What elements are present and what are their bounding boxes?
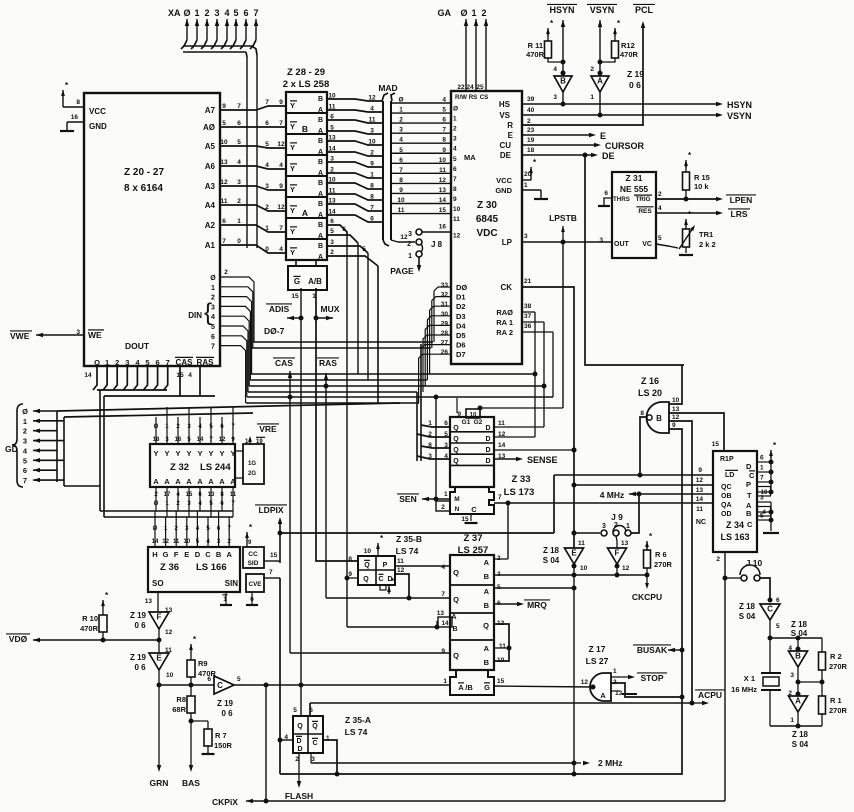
svg-text:9: 9 <box>442 147 446 154</box>
resistor R9 470R <box>187 635 217 688</box>
svg-text:G2: G2 <box>474 419 483 426</box>
svg-text:8: 8 <box>348 556 352 563</box>
svg-text:3: 3 <box>599 237 603 244</box>
svg-text:4: 4 <box>370 106 374 113</box>
svg-text:10 k: 10 k <box>694 182 709 191</box>
svg-text:38: 38 <box>524 303 532 310</box>
svg-text:12: 12 <box>622 565 630 572</box>
svg-text:12: 12 <box>165 629 173 636</box>
CKCPU line Z37 B inputs <box>494 575 647 588</box>
ACPU net label <box>310 690 725 705</box>
oscillator bottom wire <box>770 725 822 727</box>
svg-text:13: 13 <box>621 540 629 547</box>
svg-text:9: 9 <box>672 422 676 429</box>
CRT controller Z30 6845 VDC <box>439 91 535 364</box>
svg-text:RAØ: RAØ <box>496 308 513 317</box>
RAS net label with arrow <box>317 358 339 598</box>
svg-text:15: 15 <box>497 678 505 685</box>
svg-text:Y: Y <box>164 449 169 458</box>
BUSAK net label <box>633 645 685 655</box>
svg-text:5: 5 <box>453 156 457 163</box>
Z37 input wires <box>326 598 450 630</box>
svg-text:5: 5 <box>362 246 366 253</box>
RAM Z20-27 8x6164 <box>76 93 220 379</box>
svg-text:7: 7 <box>498 494 502 501</box>
svg-text:Y: Y <box>290 185 295 194</box>
svg-text:P: P <box>746 480 751 489</box>
svg-text:10: 10 <box>183 539 190 545</box>
svg-text:A: A <box>318 254 323 261</box>
svg-text:6: 6 <box>222 218 226 225</box>
LP wire 6845 to 555 <box>522 240 612 245</box>
svg-text:Ø: Ø <box>22 407 28 416</box>
svg-text:G: G <box>294 277 300 286</box>
svg-text:7: 7 <box>279 225 283 232</box>
svg-text:DOUT: DOUT <box>125 341 150 351</box>
svg-text:13: 13 <box>145 598 153 605</box>
svg-text:5: 5 <box>211 324 215 331</box>
svg-text:D3: D3 <box>456 312 466 321</box>
svg-text:10: 10 <box>453 206 461 213</box>
svg-text:13: 13 <box>328 135 336 142</box>
svg-text:Q: Q <box>363 576 369 583</box>
svg-text:D6: D6 <box>456 341 466 350</box>
svg-text:12: 12 <box>439 177 447 184</box>
svg-text:3: 3 <box>125 358 129 367</box>
svg-text:36: 36 <box>524 323 532 330</box>
Z37 A input from Z33 <box>494 558 508 560</box>
svg-text:GND: GND <box>89 122 107 131</box>
svg-text:VCC: VCC <box>496 176 512 185</box>
LD line to Z34 <box>554 467 713 475</box>
svg-text:3: 3 <box>211 304 215 311</box>
svg-text:10: 10 <box>328 177 336 184</box>
svg-text:7: 7 <box>441 591 445 598</box>
svg-text:MRQ: MRQ <box>527 600 547 610</box>
svg-text:E: E <box>184 550 189 559</box>
svg-text:BUSAK: BUSAK <box>637 645 668 655</box>
svg-text:A/B: A/B <box>308 277 322 286</box>
svg-text:Ø: Ø <box>183 8 190 18</box>
MAD bus label <box>378 83 397 101</box>
svg-text:6: 6 <box>444 420 448 427</box>
svg-text:9: 9 <box>698 467 702 474</box>
svg-text:RES: RES <box>638 208 652 215</box>
svg-text:B: B <box>795 652 801 661</box>
svg-text:LPSTB: LPSTB <box>549 213 577 223</box>
svg-text:12: 12 <box>220 179 228 186</box>
svg-text:DØ: DØ <box>456 283 467 292</box>
svg-text:1: 1 <box>399 107 403 114</box>
svg-text:FLASH: FLASH <box>285 791 313 801</box>
svg-text:P: P <box>383 562 388 569</box>
svg-text:5: 5 <box>330 228 334 235</box>
svg-text:LP: LP <box>502 238 513 247</box>
svg-text:M: M <box>454 496 459 503</box>
svg-text:16 MHz: 16 MHz <box>731 685 757 694</box>
svg-text:H: H <box>152 550 157 559</box>
svg-text:2: 2 <box>370 150 374 157</box>
svg-text:D5: D5 <box>456 331 466 340</box>
svg-text:Y: Y <box>290 122 295 131</box>
VSYN net label top <box>587 4 617 117</box>
svg-text:B: B <box>484 572 490 581</box>
svg-text:14: 14 <box>328 209 336 216</box>
RA0 RA1 RA2 wires <box>522 312 553 397</box>
svg-text:D1: D1 <box>456 293 466 302</box>
svg-text:E: E <box>156 654 162 663</box>
LPEN output <box>656 195 756 205</box>
svg-text:Y: Y <box>230 449 235 458</box>
svg-text:Q: Q <box>453 436 459 443</box>
svg-text:3: 3 <box>408 231 412 238</box>
svg-text:LRS: LRS <box>731 209 748 219</box>
svg-text:A1: A1 <box>205 241 216 250</box>
DE feedback wire <box>583 153 685 366</box>
svg-text:10: 10 <box>364 548 372 555</box>
svg-text:LS 27: LS 27 <box>586 656 609 666</box>
GD video data bus arrows 0-7 <box>5 404 100 487</box>
svg-text:R 15: R 15 <box>694 173 710 182</box>
resistor R1 270R <box>819 696 848 726</box>
svg-text:2 x LS 258: 2 x LS 258 <box>283 79 329 90</box>
svg-text:A7: A7 <box>205 106 216 115</box>
svg-text:GRN: GRN <box>150 778 169 788</box>
svg-text:Q: Q <box>364 562 370 569</box>
svg-text:A: A <box>208 477 214 486</box>
svg-text:SIN: SIN <box>225 579 239 588</box>
svg-text:Z 36: Z 36 <box>160 562 179 573</box>
svg-text:C: C <box>471 505 477 514</box>
Z33 clock wire to Z34 <box>494 501 713 560</box>
svg-text:CKPiX: CKPiX <box>212 797 238 807</box>
svg-text:Y: Y <box>219 449 224 458</box>
svg-text:Y: Y <box>290 143 295 152</box>
svg-text:A: A <box>318 170 323 177</box>
svg-text:12: 12 <box>162 539 169 545</box>
svg-text:F: F <box>174 550 179 559</box>
svg-text:15: 15 <box>439 207 447 214</box>
svg-text:1: 1 <box>370 172 374 179</box>
svg-text:6: 6 <box>237 120 241 127</box>
svg-text:Z 34: Z 34 <box>726 520 744 530</box>
GA bus labels GA0-2 <box>438 8 489 91</box>
svg-text:B: B <box>484 601 490 610</box>
ADIS net label with arrow <box>266 288 304 716</box>
svg-text:7: 7 <box>166 358 170 367</box>
svg-text:15: 15 <box>270 552 278 559</box>
XA address bus labels XA0-7 <box>168 8 259 18</box>
svg-text:6: 6 <box>265 120 269 127</box>
svg-text:5: 5 <box>237 139 241 146</box>
svg-text:12: 12 <box>368 95 376 102</box>
svg-text:3: 3 <box>760 495 764 502</box>
svg-text:B: B <box>318 222 323 229</box>
svg-text:4: 4 <box>553 66 557 73</box>
svg-text:19: 19 <box>527 137 535 144</box>
svg-text:{: { <box>204 299 212 326</box>
svg-text:3: 3 <box>330 239 334 246</box>
svg-text:6: 6 <box>207 676 211 683</box>
svg-text:Z 18: Z 18 <box>791 620 808 629</box>
svg-text:VWE: VWE <box>10 331 30 341</box>
svg-text:2: 2 <box>211 295 215 302</box>
svg-text:2G: 2G <box>248 471 256 477</box>
jumper J8 <box>391 229 451 272</box>
inverter Z19 A open collector <box>590 66 644 101</box>
HSYN net label top <box>547 4 577 106</box>
svg-text:Ø: Ø <box>460 8 467 18</box>
svg-text:11: 11 <box>398 207 405 214</box>
svg-text:3: 3 <box>602 523 606 530</box>
VWE net label and wire <box>10 331 84 341</box>
SEN net label <box>397 395 450 512</box>
svg-text:11: 11 <box>397 558 404 565</box>
6845 VCC power stub <box>522 158 537 180</box>
svg-text:VSYN: VSYN <box>727 111 752 121</box>
svg-text:7: 7 <box>265 99 269 106</box>
svg-text:B: B <box>318 180 323 187</box>
svg-text:5: 5 <box>222 120 226 127</box>
svg-text:C: C <box>378 576 383 583</box>
svg-text:1: 1 <box>613 668 617 675</box>
svg-text:12: 12 <box>581 679 589 686</box>
svg-text:8: 8 <box>76 99 80 106</box>
svg-text:4: 4 <box>442 97 446 104</box>
svg-text:2 k 2: 2 k 2 <box>699 240 716 249</box>
svg-text:SID: SID <box>248 560 259 567</box>
svg-text:5: 5 <box>776 623 780 630</box>
resistor R6 270R <box>644 532 673 578</box>
svg-text:QA: QA <box>721 502 732 509</box>
Z34 clock pin 2 <box>716 552 727 801</box>
svg-text:PCL: PCL <box>635 5 654 15</box>
svg-text:6: 6 <box>243 8 248 18</box>
svg-text:G: G <box>163 550 169 559</box>
Z32 to Z36 bus lines <box>100 511 233 517</box>
svg-text:11: 11 <box>498 420 505 427</box>
svg-text:TRIG: TRIG <box>636 196 651 203</box>
svg-text:3: 3 <box>237 179 241 186</box>
svg-text:8: 8 <box>370 194 374 201</box>
svg-text:B: B <box>318 96 323 103</box>
svg-text:8: 8 <box>399 177 403 184</box>
LDPIX net label <box>255 475 554 563</box>
svg-text:B: B <box>318 159 323 166</box>
svg-text:12: 12 <box>277 204 285 211</box>
6845 GND ground stub <box>522 190 548 199</box>
svg-text:11: 11 <box>578 540 585 547</box>
shift register Z36 LS166 <box>148 511 240 592</box>
svg-text:14: 14 <box>439 197 447 204</box>
svg-text:VDØ: VDØ <box>9 634 28 644</box>
svg-text:10: 10 <box>580 565 588 572</box>
svg-text:Z 28 - 29: Z 28 - 29 <box>287 67 325 78</box>
svg-text:2: 2 <box>265 204 269 211</box>
svg-text:14: 14 <box>84 372 92 379</box>
svg-text:13: 13 <box>696 487 704 494</box>
svg-text:J 8: J 8 <box>431 240 443 249</box>
svg-text:5: 5 <box>265 141 269 148</box>
svg-text:A: A <box>153 477 159 486</box>
svg-text:TR1: TR1 <box>699 230 713 239</box>
svg-text:A: A <box>197 477 203 486</box>
svg-text:9: 9 <box>222 103 226 110</box>
svg-text:40: 40 <box>527 107 535 114</box>
svg-text:C: C <box>312 740 317 747</box>
resistor R11 470R <box>526 19 565 65</box>
svg-text:LS 173: LS 173 <box>504 487 535 498</box>
VRE net label <box>245 424 279 445</box>
svg-text:3: 3 <box>553 94 557 101</box>
svg-text:SEN: SEN <box>399 494 416 504</box>
resistor R8 68R <box>172 685 195 724</box>
svg-text:NE 555: NE 555 <box>620 184 649 194</box>
Z33 control box <box>450 487 502 523</box>
svg-text:Q: Q <box>297 723 303 730</box>
mux outputs to MAD bus <box>327 93 383 223</box>
svg-text:LDPIX: LDPIX <box>258 505 283 515</box>
svg-text:LS 74: LS 74 <box>345 727 368 737</box>
svg-text:MUX: MUX <box>321 304 340 314</box>
svg-text:9: 9 <box>279 99 283 106</box>
svg-text:3: 3 <box>524 233 528 240</box>
svg-text:28: 28 <box>441 330 449 337</box>
svg-text:12: 12 <box>453 233 461 240</box>
Z31 THRS ground <box>598 198 612 206</box>
svg-text:Z 19: Z 19 <box>130 611 147 620</box>
svg-text:E: E <box>508 131 514 140</box>
svg-text:Z 18: Z 18 <box>739 602 756 611</box>
svg-text:DE: DE <box>602 151 615 161</box>
svg-text:Y: Y <box>290 248 295 257</box>
svg-text:G1: G1 <box>462 419 471 426</box>
svg-text:A: A <box>302 208 308 218</box>
svg-text:Z 19: Z 19 <box>627 69 644 79</box>
Z16 input wires <box>669 365 724 706</box>
svg-text:0: 0 <box>265 246 269 253</box>
svg-text:Z 16: Z 16 <box>641 376 659 386</box>
svg-text:A: A <box>484 587 490 596</box>
svg-text:11: 11 <box>696 506 703 513</box>
svg-text:GND: GND <box>495 186 512 195</box>
svg-text:6845: 6845 <box>476 214 499 225</box>
svg-text:R 6: R 6 <box>655 550 667 559</box>
svg-text:1: 1 <box>265 225 269 232</box>
svg-text:Z 33: Z 33 <box>511 474 530 485</box>
inverter Z18 C oscillator <box>739 597 780 638</box>
svg-text:RA 1: RA 1 <box>496 318 513 327</box>
svg-text:Y: Y <box>290 101 295 110</box>
svg-text:QC: QC <box>721 484 732 491</box>
svg-text:Q: Q <box>453 651 459 660</box>
svg-text:CK: CK <box>500 283 512 292</box>
svg-text:2 MHz: 2 MHz <box>598 758 623 768</box>
svg-text:31: 31 <box>441 301 449 308</box>
svg-text:Z 19: Z 19 <box>217 699 234 708</box>
svg-text:10: 10 <box>328 93 336 100</box>
svg-text:RAS: RAS <box>197 358 215 367</box>
svg-text:1: 1 <box>524 182 528 189</box>
svg-text:2: 2 <box>204 8 209 18</box>
svg-text:B: B <box>318 117 323 124</box>
4MHz net label <box>600 487 713 500</box>
svg-text:D: D <box>485 458 490 465</box>
svg-text:14: 14 <box>498 442 506 449</box>
svg-text:HSYN: HSYN <box>727 100 752 110</box>
register Z33 LS173 <box>428 409 534 498</box>
svg-text:6: 6 <box>453 166 457 173</box>
counter Z34 LS163 <box>712 441 757 552</box>
svg-text:150R: 150R <box>214 741 233 750</box>
svg-text:4: 4 <box>279 246 283 253</box>
svg-text:A: A <box>458 683 464 692</box>
svg-text:D: D <box>485 425 490 432</box>
svg-text:R 10: R 10 <box>82 614 98 623</box>
svg-text:5: 5 <box>233 8 238 18</box>
resistor R10 470R <box>80 591 109 643</box>
svg-text:A: A <box>318 233 323 240</box>
svg-text:Z 31: Z 31 <box>625 173 642 183</box>
svg-text:13: 13 <box>672 406 680 413</box>
svg-text:32: 32 <box>441 292 449 299</box>
svg-text:Y: Y <box>197 449 202 458</box>
svg-text:9: 9 <box>279 183 283 190</box>
svg-text:13: 13 <box>437 610 445 617</box>
2MHz net label <box>311 758 623 768</box>
Z33 D input wires from RA <box>457 312 577 453</box>
svg-text:5: 5 <box>23 456 27 465</box>
svg-text:CURSOR: CURSOR <box>605 141 645 151</box>
svg-text:R/W: R/W <box>455 94 467 101</box>
svg-text:5: 5 <box>442 107 446 114</box>
svg-text:11: 11 <box>453 216 460 223</box>
svg-text:CAS: CAS <box>176 358 194 367</box>
GRN output arrow <box>150 765 169 788</box>
svg-text:10: 10 <box>220 139 228 146</box>
Z36 SO output wire <box>145 592 173 614</box>
svg-text:LS 166: LS 166 <box>196 562 227 573</box>
svg-text:6: 6 <box>370 216 374 223</box>
svg-text:C: C <box>749 471 755 480</box>
resistor R12 470R <box>598 19 639 65</box>
svg-text:12: 12 <box>400 234 408 241</box>
svg-text:VC: VC <box>642 241 652 248</box>
svg-text:10: 10 <box>672 397 680 404</box>
svg-text:Q: Q <box>453 595 459 604</box>
svg-text:10: 10 <box>439 157 447 164</box>
svg-text:9: 9 <box>457 411 461 418</box>
svg-text:6: 6 <box>604 190 608 197</box>
svg-text:A3: A3 <box>205 182 216 191</box>
svg-text:B: B <box>216 550 222 559</box>
Z36 CVE box <box>246 569 280 592</box>
svg-text:A: A <box>795 697 801 706</box>
svg-text:5: 5 <box>293 707 297 714</box>
svg-text:29: 29 <box>441 320 449 327</box>
svg-text:6: 6 <box>330 114 334 121</box>
svg-text:Z 30: Z 30 <box>477 200 497 211</box>
Z35-B output wires <box>345 566 451 601</box>
svg-text:10: 10 <box>166 672 174 679</box>
timer Z31 NE555 <box>599 172 662 258</box>
svg-text:R12: R12 <box>621 41 635 50</box>
svg-text:R 11: R 11 <box>528 41 543 50</box>
Z17 pin13 ground <box>611 690 637 697</box>
svg-text:LS 20: LS 20 <box>638 388 662 398</box>
svg-text:0 6: 0 6 <box>221 709 233 718</box>
svg-text:Y: Y <box>208 449 213 458</box>
